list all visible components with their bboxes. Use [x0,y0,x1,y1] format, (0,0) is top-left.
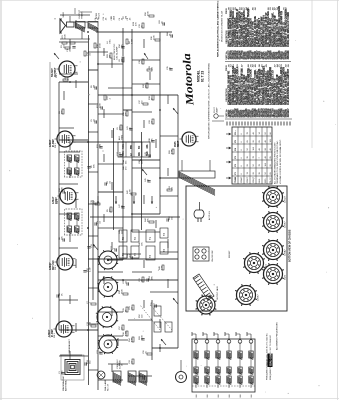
svg-text:RECT: RECT [178,140,180,147]
svg-text:REPLACEMENT ELECTRICAL AND: REPLACEMENT ELECTRICAL AND CABINET PARTS… [217,0,220,57]
svg-text:18K: 18K [151,276,153,280]
svg-text:1.2K: 1.2K [171,149,173,154]
svg-text:35Z5: 35Z5 [285,274,287,280]
svg-text:12SQ7: 12SQ7 [285,195,287,203]
svg-text:PILOT: PILOT [270,177,272,184]
svg-text:ANTENNA: ANTENNA [64,380,67,391]
svg-text:1.2K: 1.2K [161,265,163,270]
svg-text:30B1188: 30B1188 [287,50,290,60]
svg-text:12SA7: 12SA7 [284,249,287,256]
svg-text:PAD: PAD [146,151,149,156]
svg-text:560K: 560K [121,289,123,294]
svg-text:NO. 47: NO. 47 [107,383,109,391]
svg-text:33K: 33K [93,164,95,168]
svg-text:PIN 3: PIN 3 [57,199,59,204]
svg-text:12SQ7: 12SQ7 [49,262,52,270]
svg-text:42C9917: 42C9917 [287,108,290,118]
svg-text:600: 600 [229,395,231,398]
svg-text:VOLUME CONTROL AT MIN. NO SIGN: VOLUME CONTROL AT MIN. NO SIGNAL INPUT. [279,139,282,184]
svg-text:10M: 10M [99,144,101,148]
svg-text:3.3K: 3.3K [131,337,133,342]
svg-text:ALL VOLTAGES MEASURED FROM SOC: ALL VOLTAGES MEASURED FROM SOCKET [274,142,277,184]
svg-text:100K: 100K [61,187,63,192]
svg-text:220K: 220K [99,103,101,108]
svg-text:1M: 1M [109,55,111,58]
svg-text:ALIGNMENT FREQUENCIES: ALIGNMENT FREQUENCIES [276,322,279,350]
svg-text:OSC: OSC [123,151,125,156]
svg-text:PIN 3: PIN 3 [56,73,58,78]
svg-text:600: 600 [240,395,242,398]
svg-text:PRI: PRI [131,145,133,149]
svg-text:600: 600 [251,395,253,398]
svg-text:TERMINALS TO B- WITH VTVM. LIN: TERMINALS TO B- WITH VTVM. LINE 117V AC. [276,140,279,184]
svg-text:470K: 470K [141,335,143,340]
svg-text:47K: 47K [61,110,63,114]
svg-text:PLUG: PLUG [98,13,100,19]
svg-text:12SK7: 12SK7 [49,139,52,147]
svg-text:2.2M: 2.2M [129,189,131,194]
svg-text:600: 600 [207,395,209,398]
svg-text:12SQ7: 12SQ7 [253,176,255,183]
svg-text:1M: 1M [93,85,95,88]
svg-text:PIN 3: PIN 3 [55,143,57,148]
svg-text:TUBE: TUBE [235,176,237,182]
svg-text:PIN 3: PIN 3 [55,265,57,270]
svg-text:470K: 470K [99,43,101,48]
svg-text:KC: KC [139,145,141,149]
svg-text:35Z5: 35Z5 [174,141,177,147]
svg-text:FRONT: FRONT [229,250,231,258]
svg-text:1M: 1M [125,16,127,19]
svg-text:3.3M: 3.3M [125,331,127,336]
svg-text:2.2K: 2.2K [89,267,91,272]
svg-text:OUTPUT JACK: OUTPUT JACK [216,285,219,300]
svg-text:15K: 15K [61,236,63,240]
svg-text:ON-OFF SW: ON-OFF SW [212,250,214,262]
svg-text:WAVEMAGNET: WAVEMAGNET [68,338,71,353]
svg-text:LAMP: LAMP [215,107,218,113]
svg-text:CORD, LINE: W/PLUG 6 FT CORD: CORD, LINE: W/PLUG 6 FT CORD [287,12,290,47]
svg-text:COIL: COIL [123,143,125,149]
svg-text:SPECIFICATIONS: SUPERHETERODY: SPECIFICATIONS: SUPERHETERODYNE - 455 KC… [208,63,211,139]
svg-text:12SA7: 12SA7 [52,196,55,204]
svg-text:PIN 3: PIN 3 [54,333,56,338]
svg-text:470K: 470K [147,11,149,16]
svg-text:2.2M: 2.2M [131,39,133,44]
svg-text:50L6GT: 50L6GT [51,68,54,77]
svg-text:AC PLUG: AC PLUG [208,211,211,220]
svg-text:12SK7: 12SK7 [285,221,287,228]
svg-text:12SK7: 12SK7 [258,294,260,301]
svg-text:12SA7: 12SA7 [240,176,243,183]
svg-text:220K: 220K [153,35,155,40]
svg-text:600: 600 [218,395,220,398]
svg-text:OSC: OSC [109,39,111,44]
svg-text:TRIM: TRIM [121,135,123,140]
svg-text:12SK7: 12SK7 [48,329,51,337]
svg-text:SPKR: SPKR [63,11,65,17]
svg-text:600: 600 [196,395,198,398]
svg-text:C30 30-30MF: C30 30-30MF [116,46,118,60]
svg-text:BOTTOM VIEW OF CHASSIS: BOTTOM VIEW OF CHASSIS [289,229,292,262]
svg-text:DIAL-1599-A: DIAL-1599-A [268,350,272,366]
svg-text:CLIP, MOUNTING: DIAL LAMP BUT: CLIP, MOUNTING: DIAL LAMP BUT [287,68,290,105]
svg-text:61 T 23: 61 T 23 [200,71,204,82]
svg-text:MODELS 61T23 CHASSIS TS-149: MODELS 61T23 CHASSIS TS-149 [221,10,224,42]
svg-text:1M: 1M [145,85,147,88]
svg-text:150K: 150K [64,34,66,39]
svg-text:12SK7: 12SK7 [247,176,249,183]
